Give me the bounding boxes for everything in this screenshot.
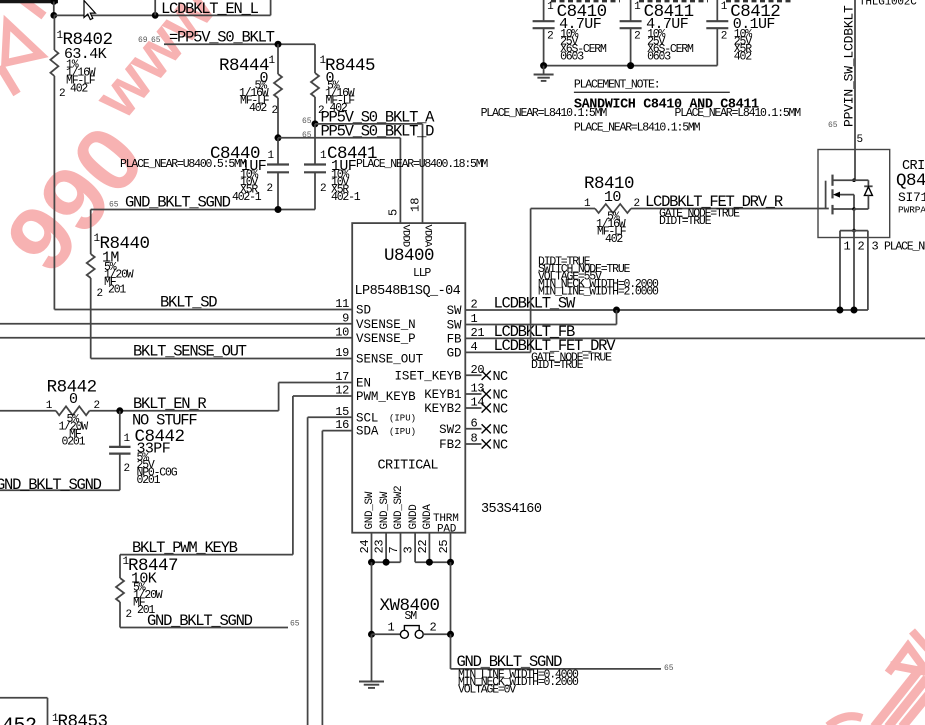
ground (cap bus) — [534, 66, 554, 81]
svg-text:FB: FB — [447, 332, 462, 346]
svg-text:GND_BKLT_SGND: GND_BKLT_SGND — [0, 476, 102, 494]
node LCDBKLT_FET_DRV — [465, 209, 616, 373]
svg-text:10: 10 — [335, 325, 349, 339]
svg-text:PLACE_NEAR=C8410:5MM: PLACE_NEAR=C8410:5MM — [884, 241, 925, 254]
svg-text:1: 1 — [268, 150, 275, 162]
svg-text:9: 9 — [342, 311, 349, 325]
wire BKLT_PWM_KEYB — [120, 539, 293, 557]
svg-text:2: 2 — [858, 240, 865, 254]
svg-text:65: 65 — [664, 664, 674, 673]
svg-text:MIN_LINE_WIDTH=2.0000: MIN_LINE_WIDTH=2.0000 — [538, 286, 659, 299]
transistor Q8460 — [818, 150, 890, 238]
svg-text:FB2: FB2 — [439, 438, 461, 452]
wire VSENSE_N — [0, 323, 352, 325]
svg-text:65: 65 — [828, 121, 838, 130]
resistor R8442 — [0, 378, 279, 449]
svg-text:0603: 0603 — [647, 51, 671, 64]
resistor R8402 — [50, 15, 112, 309]
svg-text:=PP5V_S0_BKLT: =PP5V_S0_BKLT — [169, 29, 275, 47]
node =PP5V_S0_BKLT — [138, 29, 315, 74]
svg-text:BKLT_PWM_KEYB: BKLT_PWM_KEYB — [132, 539, 238, 557]
capacitor C8442 (NO STUFF) — [109, 411, 197, 490]
resistor R8444 — [219, 44, 282, 138]
svg-text:1: 1 — [844, 240, 851, 254]
node BKLT_EN_R — [116, 383, 352, 415]
jumper XW8400 — [368, 596, 454, 638]
svg-text:GNDD: GNDD — [408, 504, 420, 530]
svg-text:SI7137DP-T1-GE3: SI7137DP-T1-GE3 — [898, 190, 925, 205]
svg-text:65: 65 — [151, 36, 161, 45]
svg-text:7: 7 — [387, 547, 401, 554]
capacitor C8410 — [533, 0, 607, 66]
svg-text:NC: NC — [493, 389, 509, 404]
svg-text:65: 65 — [302, 117, 312, 126]
wire LCDBKLT_EN_L — [50, 12, 270, 19]
svg-text:3: 3 — [872, 240, 879, 254]
node GND_BKLT_SGND (upper) — [91, 194, 315, 214]
svg-text:353S4160: 353S4160 — [481, 502, 542, 517]
svg-text:LP8548B1SQ_-04: LP8548B1SQ_-04 — [355, 284, 461, 299]
node 8452 partial box — [0, 698, 48, 725]
op-amp U8400 LP8548B1SQ_-04 — [352, 198, 465, 533]
U8400 left pin numbers — [335, 297, 349, 432]
svg-text:2: 2 — [547, 31, 554, 43]
node LCDBKLT_EN_L label box — [155, 0, 270, 18]
wire BKLT_SD — [54, 294, 352, 312]
svg-text:GND_BKLT_SGND: GND_BKLT_SGND — [147, 612, 253, 630]
node GND_BKLT_SGND (left edge) — [0, 476, 120, 494]
svg-text:SW: SW — [447, 304, 462, 318]
capacitor C8412 — [706, 0, 780, 66]
resistor R8447 — [116, 555, 178, 628]
node GND_BKLT_SGND (bottom) — [451, 634, 674, 696]
svg-text:3: 3 — [402, 547, 416, 554]
wire SCL — [308, 417, 353, 725]
svg-text:0603: 0603 — [560, 51, 584, 64]
svg-text:22: 22 — [416, 540, 430, 554]
node GND_BKLT_SGND (below R8447) — [120, 612, 300, 630]
svg-text:5: 5 — [857, 134, 864, 146]
svg-text:NC: NC — [493, 403, 509, 418]
svg-text:0: 0 — [69, 391, 78, 408]
svg-text:VDDD: VDDD — [400, 225, 412, 247]
svg-text:1: 1 — [124, 433, 131, 445]
svg-text:65: 65 — [302, 131, 312, 140]
ground (XW8400) — [359, 634, 384, 688]
svg-text:U8400: U8400 — [384, 246, 434, 266]
svg-text:2: 2 — [97, 288, 104, 300]
wire PWM_KEYB — [293, 396, 352, 555]
svg-text:1: 1 — [721, 1, 728, 13]
svg-text:GND_SW: GND_SW — [379, 491, 391, 529]
svg-text:2: 2 — [721, 31, 728, 43]
svg-text:KEYB2: KEYB2 — [424, 402, 461, 416]
svg-text:PLACE_NEAR=L8410.1:5MM: PLACE_NEAR=L8410.1:5MM — [675, 107, 802, 120]
svg-text:BKLT_EN_R: BKLT_EN_R — [133, 395, 206, 413]
svg-text:65: 65 — [109, 201, 119, 210]
U8400 right pin names — [394, 304, 462, 452]
resistor R8440 — [87, 210, 150, 359]
svg-text:2: 2 — [634, 198, 641, 210]
node PPVIN_SW_LCDBKLT — [842, 0, 864, 180]
svg-text:KEYB1: KEYB1 — [424, 388, 461, 402]
node PP5V_S0_BKLT_D — [275, 122, 435, 223]
svg-text:1: 1 — [269, 55, 276, 67]
svg-text:PLACE_NEAR=U8400.5:5MM: PLACE_NEAR=U8400.5:5MM — [120, 158, 247, 171]
svg-text:1: 1 — [584, 198, 591, 210]
svg-text:PLACEMENT_NOTE:: PLACEMENT_NOTE: — [574, 79, 660, 92]
svg-text:1: 1 — [388, 621, 395, 635]
svg-text:18: 18 — [409, 198, 423, 212]
svg-text:DIDT=TRUE: DIDT=TRUE — [659, 215, 712, 228]
svg-text:GD: GD — [447, 346, 462, 360]
svg-text:2: 2 — [272, 105, 279, 117]
svg-text:SDA: SDA — [356, 425, 379, 439]
svg-text:NC: NC — [493, 370, 509, 385]
svg-text:69: 69 — [138, 36, 148, 45]
mouse cursor — [84, 1, 95, 20]
capacitor C8441 — [304, 124, 488, 210]
svg-text:PWM_KEYB: PWM_KEYB — [356, 390, 416, 404]
svg-text:BKLT_SENSE_OUT: BKLT_SENSE_OUT — [133, 343, 247, 361]
svg-text:65: 65 — [290, 620, 300, 629]
node LCDBKLT_FET_DRV_R — [645, 193, 783, 228]
svg-text:(IPU): (IPU) — [389, 427, 416, 437]
svg-text:16: 16 — [335, 418, 349, 432]
svg-text:LLP: LLP — [413, 267, 431, 280]
wire SDA — [322, 431, 352, 725]
wire SW pin1 — [465, 310, 616, 325]
svg-text:15: 15 — [335, 405, 349, 419]
svg-text:BKLT_SD: BKLT_SD — [160, 294, 217, 312]
svg-text:25: 25 — [437, 540, 451, 554]
svg-text:GND_SW2: GND_SW2 — [393, 486, 405, 530]
svg-text:2: 2 — [320, 183, 327, 195]
svg-text:ISET_KEYB: ISET_KEYB — [394, 369, 462, 383]
svg-text:SD: SD — [356, 304, 371, 318]
svg-text:0201: 0201 — [62, 436, 86, 449]
wire GND pins to junction row — [368, 533, 454, 635]
svg-text:2: 2 — [430, 621, 437, 635]
svg-text:PAD: PAD — [437, 524, 457, 536]
svg-text:23: 23 — [373, 540, 387, 554]
svg-text:VDDA: VDDA — [422, 225, 434, 248]
svg-text:17: 17 — [335, 370, 349, 384]
placement note — [481, 79, 838, 135]
U8400 right pin numbers — [471, 298, 485, 446]
cut net label dashes — [551, 0, 791, 2]
svg-text:402: 402 — [734, 51, 752, 64]
svg-text:SW2: SW2 — [439, 423, 461, 437]
svg-text:EN: EN — [356, 377, 371, 391]
svg-text:10: 10 — [604, 189, 621, 206]
U8400 left pin names — [356, 304, 424, 439]
svg-text:GND_BKLT_SGND: GND_BKLT_SGND — [125, 194, 231, 212]
svg-text:SM: SM — [405, 610, 418, 623]
resistor R8410 — [531, 174, 829, 246]
wire VSENSE_P — [0, 337, 352, 339]
svg-text:24: 24 — [358, 540, 372, 554]
svg-text:402-1: 402-1 — [232, 191, 262, 204]
svg-text:11: 11 — [335, 297, 349, 311]
svg-text:PP5V_S0_BKLT_D: PP5V_S0_BKLT_D — [321, 122, 435, 140]
svg-text:1: 1 — [320, 150, 327, 162]
svg-text:THLG1002C: THLG1002C — [859, 0, 917, 9]
svg-text:R8453: R8453 — [58, 712, 108, 725]
node LCDBKLT_SW — [465, 295, 868, 314]
resistor R8445 — [311, 55, 375, 124]
svg-text:DIDT=TRUE: DIDT=TRUE — [531, 359, 584, 372]
svg-text:NC: NC — [493, 423, 509, 438]
svg-text:LCDBKLT_EN_L: LCDBKLT_EN_L — [161, 0, 259, 18]
svg-text:19: 19 — [335, 346, 349, 360]
NC pins — [465, 370, 508, 454]
svg-text:2: 2 — [634, 31, 641, 43]
Q8460 labels — [896, 159, 925, 216]
node PP5V_S0_BKLT_A — [302, 109, 435, 224]
svg-text:VSENSE_P: VSENSE_P — [356, 332, 416, 346]
svg-text:0201: 0201 — [137, 474, 161, 487]
svg-text:GND_SW: GND_SW — [364, 491, 376, 529]
svg-text:VSENSE_N: VSENSE_N — [356, 318, 416, 332]
svg-text:PLACE_NEAR=U8400.18:5MM: PLACE_NEAR=U8400.18:5MM — [356, 158, 488, 171]
svg-text:12: 12 — [335, 384, 349, 398]
svg-text:SENSE_OUT: SENSE_OUT — [356, 353, 424, 367]
svg-text:1: 1 — [634, 1, 641, 13]
capacitor C8440 — [120, 138, 289, 210]
svg-text:SCL: SCL — [356, 411, 378, 425]
svg-text:2: 2 — [267, 183, 274, 195]
svg-text:402: 402 — [605, 233, 623, 246]
svg-text:1: 1 — [547, 1, 554, 13]
svg-text:CRITICAL: CRITICAL — [378, 459, 439, 474]
svg-text:PLACE_NEAR=L8410.1:5MM: PLACE_NEAR=L8410.1:5MM — [574, 122, 701, 135]
wire thick bus top-left — [0, 0, 58, 15]
wire BKLT_SENSE_OUT — [91, 343, 353, 361]
svg-text:PLACE_NEAR=L8410.1:5MM: PLACE_NEAR=L8410.1:5MM — [481, 107, 608, 120]
svg-text:2: 2 — [126, 609, 133, 621]
notes DIDT block — [538, 256, 659, 299]
capacitor C8411 — [620, 0, 694, 66]
svg-text:452: 452 — [2, 715, 37, 725]
svg-text:NC: NC — [493, 439, 509, 454]
svg-text:(IPU): (IPU) — [389, 414, 416, 424]
svg-text:402: 402 — [249, 102, 267, 115]
U8400 bottom pin numbers — [358, 540, 451, 554]
wire cap ground bus — [540, 62, 717, 69]
svg-text:2: 2 — [124, 463, 131, 475]
svg-text:402: 402 — [70, 83, 88, 96]
U8400 bottom pin names — [364, 486, 458, 536]
svg-text:SW: SW — [447, 319, 462, 333]
svg-text:5: 5 — [387, 209, 401, 216]
svg-text:2: 2 — [94, 400, 101, 412]
svg-text:402-1: 402-1 — [331, 191, 361, 204]
Q8460 pin wires 1 2 3 — [836, 231, 925, 314]
resistor R8453 partial — [52, 712, 108, 725]
svg-text:1: 1 — [46, 400, 53, 412]
node LCDBKLT_FB — [465, 323, 925, 341]
svg-text:PWRPAK_SO-8: PWRPAK_SO-8 — [898, 205, 925, 216]
svg-text:2: 2 — [59, 88, 66, 100]
svg-text:VOLTAGE=0V: VOLTAGE=0V — [458, 684, 516, 697]
svg-text:201: 201 — [108, 284, 126, 297]
svg-text:Q8460: Q8460 — [896, 171, 925, 191]
